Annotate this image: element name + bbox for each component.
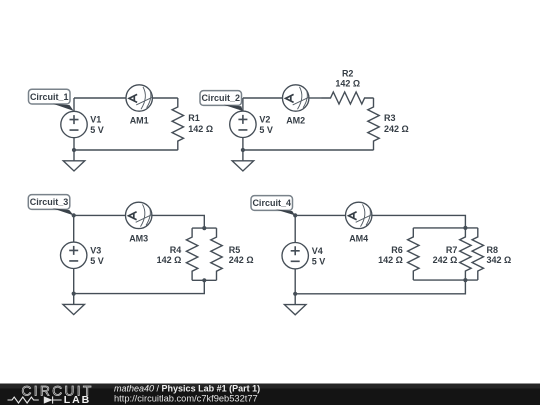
resistor R8 [472, 228, 511, 280]
ground (circuit 1) [63, 161, 85, 171]
voltage source V4 [282, 243, 325, 269]
svg-text:R4: R4 [170, 245, 182, 255]
wire V3 bottom to ground [73, 269, 75, 305]
footer url line [114, 394, 258, 404]
wire top rail V1 to AM1 [74, 97, 126, 99]
resistor R3 [368, 98, 409, 150]
svg-text:mathea40 / Physics Lab #1 (Par: mathea40 / Physics Lab #1 (Part 1) [114, 383, 260, 393]
node junction Circuit_4 top [293, 213, 297, 217]
node label Circuit_3 callout wedge [52, 208, 73, 215]
voltage source V1 [61, 111, 104, 137]
wire V1 top to top rail [73, 98, 75, 111]
node label Circuit_1 box [29, 89, 71, 104]
wire AM1 to R1 corner [152, 97, 177, 99]
svg-text:R1: R1 [188, 113, 200, 123]
wire bottom bar R6-R7-R8 [413, 279, 478, 281]
svg-text:LAB: LAB [64, 394, 91, 405]
node junction parallel bottom (circuit 4) [463, 278, 467, 282]
wire bottom rail R1 to V1 [74, 149, 178, 151]
svg-text:142 Ω: 142 Ω [157, 255, 182, 265]
node junction parallel top (circuit 4) [463, 226, 467, 230]
node junction V4 bottom rail [293, 292, 297, 296]
wire V2 top to top rail [242, 98, 244, 111]
wire parallel pair to bottom rail [74, 280, 205, 293]
ammeter AM2 [283, 85, 309, 126]
svg-text:Circuit_4: Circuit_4 [252, 198, 291, 208]
wire top rail V2 to AM2 [243, 97, 283, 99]
node junction V3 bottom rail [72, 292, 76, 296]
wire AM3 to parallel pair feed [152, 215, 204, 228]
node label Circuit_1 callout wedge [53, 104, 74, 111]
wire parallel trio to bottom rail [295, 280, 465, 294]
wire top rail V4 to AM4 [295, 214, 345, 216]
svg-text:Circuit_3: Circuit_3 [30, 197, 69, 207]
resistor R1 [172, 98, 213, 150]
wire top bar R6-R7-R8 [413, 227, 478, 229]
svg-text:AM3: AM3 [129, 233, 148, 243]
resistor R6 [378, 228, 419, 280]
footer background bar [0, 384, 540, 405]
svg-text:AM1: AM1 [130, 115, 149, 125]
svg-text:R2: R2 [342, 68, 354, 78]
svg-text:V3: V3 [90, 246, 101, 256]
ammeter AM3 [126, 202, 152, 243]
svg-text:342 Ω: 342 Ω [487, 255, 512, 265]
node label Circuit_2 callout wedge [224, 105, 243, 111]
wire AM2 to R2 [309, 97, 322, 99]
wire bottom rail R3 to V2 [243, 149, 374, 151]
wire V4 bottom to ground [294, 269, 296, 305]
node label Circuit_4 callout wedge [275, 209, 295, 215]
voltage source V2 [230, 111, 273, 137]
svg-text:5 V: 5 V [259, 125, 273, 135]
ground (circuit 2) [232, 161, 254, 171]
resistor R2 [322, 68, 374, 104]
logo CIRCUIT outline text [22, 384, 94, 399]
svg-text:242 Ω: 242 Ω [433, 255, 458, 265]
node label Circuit_2 box [200, 91, 242, 106]
svg-text:242 Ω: 242 Ω [229, 255, 254, 265]
wire V4 top to top rail [294, 215, 296, 242]
logo LAB text [64, 394, 91, 405]
svg-text:AM4: AM4 [349, 233, 368, 243]
logo diode symbol [44, 396, 62, 403]
wire top bar R4-R5 [192, 227, 216, 229]
ammeter AM1 [126, 85, 152, 126]
ground (circuit 4) [284, 305, 306, 315]
wire bottom bar R4-R5 [192, 279, 216, 281]
svg-text:Circuit_1: Circuit_1 [30, 92, 69, 102]
svg-text:http://circuitlab.com/c7kf9eb5: http://circuitlab.com/c7kf9eb532t77 [114, 394, 258, 404]
voltage source V3 [60, 242, 103, 268]
node label Circuit_3 box [28, 195, 70, 210]
svg-text:142 Ω: 142 Ω [188, 124, 213, 134]
svg-text:142 Ω: 142 Ω [378, 255, 403, 265]
resistor R7 [433, 228, 471, 280]
wire V3 top to top rail [73, 215, 75, 242]
wire V1 bottom to ground [73, 138, 75, 161]
node junction V2 bottom rail [241, 148, 245, 152]
node junction parallel bottom (circuit 3) [202, 278, 206, 282]
svg-text:242 Ω: 242 Ω [384, 124, 409, 134]
svg-text:5 V: 5 V [90, 125, 104, 135]
svg-text:5 V: 5 V [312, 256, 326, 266]
wire AM4 to parallel trio feed [372, 215, 465, 228]
svg-text:V4: V4 [312, 246, 323, 256]
wire top rail V3 to AM3 [74, 214, 126, 216]
svg-text:R6: R6 [391, 245, 403, 255]
svg-text:Circuit_2: Circuit_2 [201, 93, 240, 103]
logo resistor squiggle [8, 397, 39, 403]
ground (circuit 3) [63, 304, 85, 314]
node label Circuit_4 box [251, 196, 293, 211]
svg-text:R7: R7 [446, 245, 458, 255]
ammeter AM4 [346, 202, 372, 243]
svg-text:R5: R5 [229, 245, 241, 255]
svg-text:5 V: 5 V [90, 256, 104, 266]
svg-text:R8: R8 [487, 245, 499, 255]
node junction Circuit_3 top [72, 213, 76, 217]
node junction V1 bottom rail [72, 148, 76, 152]
svg-text:V1: V1 [90, 115, 101, 125]
node junction parallel top (circuit 3) [202, 226, 206, 230]
resistor R4 [157, 228, 198, 280]
resistor R5 [211, 228, 254, 280]
wire V2 bottom to ground [242, 138, 244, 161]
svg-text:V2: V2 [259, 115, 270, 125]
svg-text:AM2: AM2 [286, 115, 305, 125]
svg-text:R3: R3 [384, 113, 396, 123]
svg-text:142 Ω: 142 Ω [335, 78, 360, 88]
footer title line [114, 383, 260, 393]
